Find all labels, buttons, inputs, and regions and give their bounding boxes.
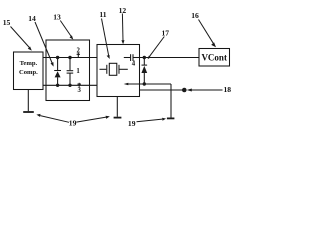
svg-text:VCont: VCont <box>201 53 227 63</box>
svg-text:4: 4 <box>132 60 136 67</box>
svg-text:19: 19 <box>128 119 136 128</box>
svg-text:Comp.: Comp. <box>19 69 38 76</box>
svg-text:14: 14 <box>28 14 36 23</box>
svg-text:Temp.: Temp. <box>20 60 38 67</box>
svg-text:11: 11 <box>99 10 106 19</box>
svg-text:3: 3 <box>77 87 81 94</box>
svg-text:2: 2 <box>76 47 80 54</box>
svg-text:12: 12 <box>119 6 127 15</box>
svg-text:19: 19 <box>69 118 77 127</box>
svg-text:17: 17 <box>162 28 170 37</box>
svg-text:15: 15 <box>3 18 11 27</box>
svg-text:13: 13 <box>53 13 61 22</box>
svg-text:16: 16 <box>191 11 199 20</box>
svg-text:1: 1 <box>76 68 80 75</box>
svg-text:18: 18 <box>224 85 232 94</box>
